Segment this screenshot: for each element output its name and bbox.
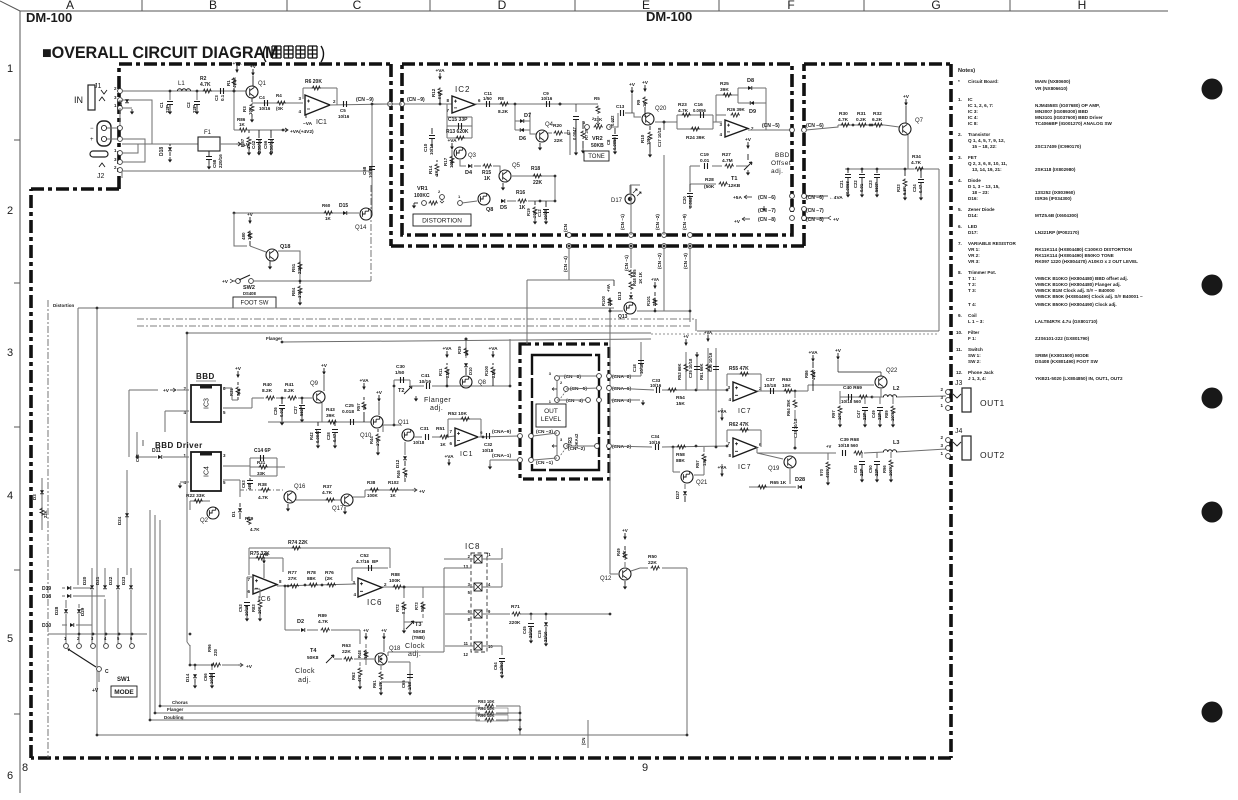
- diode D9: [750, 101, 754, 105]
- svg-text:10K: 10K: [247, 231, 252, 240]
- resistor R60 1K: [324, 211, 334, 215]
- wire IC6a out row: [277, 584, 356, 586]
- Distortion bus wire: [78, 307, 614, 309]
- diode D8: [748, 86, 752, 90]
- svg-text:(CN −4): (CN −4): [563, 256, 568, 272]
- R70 470K vertical: [827, 453, 829, 460]
- svg-text:Notes): Notes): [958, 68, 975, 74]
- resistor R42 0.0047 vertical: [317, 422, 319, 426]
- svg-text:J1: J1: [94, 83, 102, 90]
- svg-text:Q18: Q18: [280, 244, 290, 250]
- diode D11: [158, 455, 162, 459]
- svg-text:4.7K: 4.7K: [200, 82, 211, 88]
- svg-text:8.2K: 8.2K: [284, 388, 295, 394]
- trimmer T3: [404, 622, 423, 628]
- svg-text:560P: 560P: [299, 406, 304, 416]
- resistor R87 1K: [248, 130, 250, 133]
- svg-text:−: −: [90, 126, 94, 132]
- svg-text:D20: D20: [82, 576, 87, 585]
- diode D23: [130, 568, 132, 585]
- ground VR1: [414, 202, 418, 204]
- resistor R31 0.2K: [858, 123, 868, 127]
- resistor R12 56K: [438, 88, 442, 97]
- svg-text:R100: R100: [484, 365, 489, 376]
- svg-text:Clock: Clock: [405, 643, 425, 650]
- wire Q18 collector right: [388, 652, 444, 670]
- svg-text:R30: R30: [839, 111, 848, 117]
- wire J1 ring loop: [122, 100, 152, 144]
- MAIN board outline left edge: [29, 189, 33, 758]
- trimmer T2: [404, 386, 412, 394]
- svg-text:C14 6P: C14 6P: [254, 448, 271, 454]
- svg-text:C19: C19: [700, 152, 709, 158]
- R96 220 cluster: [190, 645, 238, 665]
- svg-text:C34: C34: [651, 434, 660, 439]
- svg-text:3: 3: [7, 347, 13, 359]
- svg-text:10K: 10K: [622, 550, 627, 558]
- capacitor C33 10/16: [657, 387, 660, 393]
- wire pot to right edge: [557, 376, 599, 400]
- svg-text:+VA: +VA: [651, 277, 659, 282]
- svg-text:22P: 22P: [877, 412, 882, 420]
- resistor R34 4.7K: [915, 167, 925, 171]
- resistor R74 22K: [292, 546, 302, 550]
- wire top loop R74: [249, 548, 390, 568]
- capacitor C45 22/10: [530, 614, 532, 620]
- svg-text:10K: 10K: [375, 438, 380, 446]
- verticals R53 C35: [686, 352, 697, 390]
- svg-text:10/18: 10/18: [413, 440, 425, 445]
- bus right tie: [496, 706, 520, 735]
- resistor R27 4.7M: [725, 164, 735, 168]
- capacitor C1 22P: [169, 91, 171, 100]
- svg-text:C53: C53: [238, 604, 243, 612]
- svg-text:10/16: 10/16: [541, 96, 553, 101]
- svg-text:R46: R46: [396, 470, 401, 478]
- resistor R35 56K: [236, 387, 240, 396]
- svg-text:10.: 10.: [956, 330, 962, 335]
- svg-text:C27: C27: [293, 406, 298, 414]
- IC4 BBD driver chip: [191, 452, 221, 491]
- svg-text:ZJS6101-222 (GX801790): ZJS6101-222 (GX801790): [1035, 336, 1090, 341]
- svg-text:0.0047: 0.0047: [688, 195, 693, 208]
- svg-text:L3: L3: [893, 440, 899, 446]
- svg-text:13S252 (IX803960): 13S252 (IX803960): [1035, 190, 1075, 195]
- svg-text:VM5CK B50KO (HX804490) Clock a: VM5CK B50KO (HX804490) Clock adj.: [1035, 302, 1117, 307]
- svg-text:(CN −2): (CN −2): [657, 253, 662, 269]
- MAIN board outline notch right edge: [802, 64, 806, 246]
- punch hole dots: [1202, 79, 1223, 100]
- svg-text:C32: C32: [484, 442, 493, 447]
- svg-text:(CN −6): (CN −6): [758, 195, 776, 201]
- svg-text:R14: R14: [428, 165, 433, 174]
- ground at J1 sleeve: [131, 109, 133, 112]
- resistor R62b 47K: [359, 662, 361, 666]
- svg-text:D16:: D16:: [968, 196, 978, 201]
- svg-text:R97: R97: [831, 410, 836, 418]
- resistor R100b 22K: [608, 298, 612, 307]
- svg-text:(CNA−9): (CNA−9): [492, 429, 511, 435]
- bus left feeders: [150, 510, 160, 720]
- svg-text:T 2:: T 2:: [968, 282, 977, 287]
- svg-text:Q9: Q9: [310, 381, 319, 387]
- wire IC1f out to CNA-9: [478, 436, 518, 437]
- svg-text:SR8M (KX801500) MODE: SR8M (KX801500) MODE: [1035, 353, 1089, 358]
- svg-text:4.7/16: 4.7/16: [356, 559, 370, 565]
- svg-text:−VA: −VA: [303, 121, 313, 127]
- svg-text:VR (NX806610): VR (NX806610): [1035, 86, 1068, 91]
- capacitor C58 220/16: [208, 151, 210, 156]
- wire Q9 emitter row: [268, 403, 360, 422]
- op-amp IC7a: [733, 382, 757, 401]
- long wire footswitch to mid: [187, 333, 651, 665]
- capacitor C34 10/16: [656, 444, 659, 450]
- svg-text:R27: R27: [722, 152, 731, 158]
- capacitor C15b 22/10: [545, 614, 547, 620]
- svg-text:R88: R88: [391, 572, 400, 578]
- svg-text:8: 8: [22, 762, 28, 774]
- svg-text:R96 10K: R96 10K: [478, 713, 495, 718]
- wires lower pot: [533, 433, 597, 460]
- resistor R61b 4.7K: [380, 666, 382, 670]
- svg-text:D17:: D17:: [968, 230, 978, 235]
- svg-text:0.0056: 0.0056: [612, 137, 617, 150]
- svg-text:Diode: Diode: [968, 178, 981, 183]
- svg-text:8.2K: 8.2K: [498, 109, 509, 115]
- feedback R52 10K: [448, 419, 481, 437]
- svg-text:10K: 10K: [646, 136, 651, 145]
- svg-text:OUT1: OUT1: [980, 398, 1005, 408]
- vertical R64 C38: [794, 391, 796, 448]
- svg-text:(CN: (CN: [563, 224, 568, 232]
- svg-text:C50: C50: [868, 465, 873, 473]
- svg-text:R49: R49: [616, 548, 621, 556]
- svg-text:10/18: 10/18: [639, 363, 644, 374]
- capacitor C22 0.01: [861, 169, 863, 173]
- resistor R80 10K: [248, 231, 252, 240]
- svg-text:Q20: Q20: [655, 106, 667, 112]
- wire right rail horizontal: [696, 319, 939, 331]
- capacitor C26 0.01: [281, 398, 283, 404]
- OUT LEVEL label box: [536, 404, 566, 427]
- C19 R27 T1 bbd offset cluster: [690, 166, 748, 184]
- svg-text:10/18 560: 10/18 560: [838, 443, 859, 448]
- wire C25 to Q10: [358, 421, 371, 423]
- svg-text:RK097 1220 (HX804470) A10KO x: RK097 1220 (HX804470) A10KO x 2 OUT LEVE…: [1035, 259, 1138, 264]
- resistor R21 33K: [259, 465, 269, 469]
- fuse F1: [198, 137, 220, 151]
- svg-text:50KB: 50KB: [591, 143, 604, 149]
- wire T2 row: [410, 385, 510, 387]
- svg-text:15 ~ 18, 22:: 15 ~ 18, 22:: [972, 144, 997, 149]
- svg-text:L1: L1: [178, 81, 185, 87]
- capacitor C31: [426, 434, 429, 440]
- wire Q13 down to Q12: [609, 311, 611, 574]
- svg-text:C15 33P: C15 33P: [448, 117, 468, 123]
- resistor R41 8.2K: [288, 396, 298, 400]
- coil L3: [883, 450, 896, 452]
- svg-text:R101: R101: [646, 295, 651, 306]
- op-amp IC6a: [253, 575, 277, 594]
- svg-text:15K: 15K: [676, 401, 685, 407]
- svg-text:Q1: Q1: [258, 81, 267, 87]
- op-amp IC1b: [725, 120, 748, 137]
- svg-text:J4: J4: [955, 428, 963, 435]
- TONE label box: [584, 151, 609, 161]
- svg-text:R19: R19: [526, 208, 531, 216]
- svg-text:88K: 88K: [676, 458, 685, 464]
- svg-text:MN3007 (IG089300) BBD: MN3007 (IG089300) BBD: [1035, 109, 1089, 114]
- resistor R3 10K: [251, 98, 253, 102]
- wire +VA supply rail: [234, 91, 283, 130]
- capacitor C13 0.022: [621, 110, 624, 116]
- resistor R43 39K: [328, 420, 338, 424]
- capacitor C11 1/50: [487, 101, 490, 107]
- svg-text:R24 39K: R24 39K: [686, 135, 705, 141]
- capacitor C27 560P: [301, 398, 303, 404]
- diode D1: [239, 503, 241, 507]
- svg-text:D19: D19: [42, 586, 51, 592]
- svg-text:R10: R10: [640, 134, 645, 143]
- svg-text:C58: C58: [212, 159, 217, 168]
- svg-text:10K: 10K: [449, 159, 454, 168]
- diode D22: [117, 568, 119, 585]
- wire IC1 out to CN-9: [330, 104, 390, 105]
- ground Q16 Q17: [287, 504, 289, 506]
- capacitor C28 0.47: [334, 422, 336, 426]
- svg-text:100K: 100K: [367, 493, 379, 498]
- svg-text:10/16: 10/16: [338, 114, 350, 119]
- svg-text:TONE: TONE: [588, 154, 605, 160]
- resistor R54 15K: [668, 388, 678, 392]
- svg-text:G: G: [931, 0, 940, 12]
- svg-text:6.2K: 6.2K: [872, 117, 883, 123]
- resistor R57b 15K vertical: [703, 447, 705, 472]
- svg-text:Distortion: Distortion: [53, 303, 74, 308]
- svg-text:D23: D23: [121, 576, 126, 585]
- svg-text:R65 1K: R65 1K: [770, 480, 787, 486]
- svg-text:Coil: Coil: [968, 313, 977, 318]
- svg-text:R21: R21: [257, 460, 266, 465]
- svg-text:C13: C13: [616, 104, 625, 109]
- ground Q5: [502, 183, 504, 185]
- transistor Q21 FET: [681, 471, 693, 483]
- svg-text:Q8: Q8: [486, 207, 493, 213]
- resistor R88 100K: [393, 585, 403, 589]
- svg-text:D11: D11: [152, 448, 161, 454]
- svg-text:4.7K: 4.7K: [258, 495, 269, 501]
- svg-text:VM5CK B1M Clock adj. S/# ~ B40: VM5CK B1M Clock adj. S/# ~ B40000: [1035, 288, 1115, 293]
- long verticals R61 C36: [708, 348, 716, 448]
- thin chain line mid horizontal 1: [137, 318, 696, 320]
- svg-text:R26 39K: R26 39K: [727, 107, 746, 112]
- battery B1: [97, 121, 111, 146]
- svg-text:D10: D10: [468, 367, 473, 375]
- svg-text:Flanger: Flanger: [424, 397, 451, 404]
- capacitor C39 and resistor R68 560: [843, 450, 846, 456]
- svg-text:56K: 56K: [437, 90, 442, 99]
- svg-text:C64: C64: [493, 662, 498, 670]
- thin chain line near Q14: [370, 185, 372, 281]
- pot VR2 50KB: [585, 125, 590, 130]
- svg-text:22P: 22P: [859, 468, 864, 476]
- svg-text:R63: R63: [782, 377, 791, 383]
- svg-text:IN: IN: [74, 95, 83, 105]
- svg-text:R39: R39: [457, 346, 462, 354]
- capacitor C2 22P: [196, 91, 198, 100]
- resistor R2 4.7K: [203, 89, 213, 93]
- svg-text:C2: C2: [186, 102, 191, 108]
- wire CNA-1 row: [490, 460, 518, 464]
- C52 loop: [352, 568, 388, 581]
- svg-text:1K: 1K: [434, 169, 439, 176]
- svg-text:FOOT SW: FOOT SW: [241, 301, 269, 307]
- OUT LEVEL board inner outline: [532, 355, 599, 470]
- svg-text:Q19: Q19: [768, 466, 780, 472]
- svg-text:(CN −2): (CN −2): [655, 214, 660, 230]
- svg-text:1K: 1K: [464, 351, 469, 356]
- svg-text:C37: C37: [766, 377, 775, 383]
- svg-text:+VA: +VA: [704, 330, 712, 335]
- resistor R57 1K: [362, 402, 366, 411]
- resistor R72 8.2K vertical: [403, 587, 405, 622]
- svg-text:0.47: 0.47: [332, 433, 337, 442]
- capacitor C18 10/18: [638, 361, 644, 364]
- svg-text:T 3:: T 3:: [968, 288, 977, 293]
- transistor Q22: [875, 376, 887, 388]
- svg-text:C58: C58: [362, 166, 367, 175]
- svg-text:R53 66K: R53 66K: [677, 363, 682, 380]
- svg-text:10K: 10K: [248, 106, 253, 115]
- svg-text:Transistor: Transistor: [968, 132, 990, 137]
- svg-text:22K: 22K: [554, 138, 563, 144]
- svg-text:+5A: +5A: [733, 195, 742, 201]
- svg-text:10/18: 10/18: [482, 448, 494, 453]
- diode pair D7 D6: [515, 104, 530, 130]
- svg-text:0.0068: 0.0068: [845, 181, 850, 194]
- svg-text:F1: F1: [204, 130, 212, 136]
- svg-text:D18: D18: [42, 594, 51, 600]
- svg-text:BBD: BBD: [196, 372, 215, 381]
- svg-text:+VA: +VA: [606, 284, 611, 292]
- capacitor C30 1/50: [401, 377, 404, 383]
- svg-text:1.: 1.: [958, 97, 962, 102]
- capacitor C63 47P: [249, 478, 251, 480]
- transistor Q13 FET: [624, 302, 636, 314]
- svg-text:Q7: Q7: [915, 118, 924, 124]
- capacitor C47 22P: [864, 397, 866, 404]
- svg-text:D22: D22: [108, 576, 113, 585]
- svg-text:adj.: adj.: [771, 168, 783, 175]
- wire to L3 and J4: [864, 449, 946, 453]
- resistor R20 22K: [554, 131, 564, 135]
- svg-text:(CN −7): (CN −7): [758, 208, 776, 214]
- trimmer T1 12KB: [744, 162, 752, 170]
- transistor Q18a: [266, 249, 278, 261]
- capacitor C48 22P: [861, 453, 863, 458]
- switch SW2: [232, 280, 236, 282]
- svg-text:1K: 1K: [403, 473, 408, 478]
- svg-text:1/50: 1/50: [395, 370, 405, 376]
- transistor Q1: [246, 86, 258, 98]
- svg-text:B: B: [209, 0, 217, 12]
- coil L2: [883, 395, 896, 397]
- svg-text:R62: R62: [351, 672, 356, 680]
- svg-text:1K: 1K: [484, 176, 491, 182]
- MAIN board outline bottom edge: [31, 756, 951, 760]
- svg-text:T 4:: T 4:: [968, 302, 977, 307]
- svg-text:(0K: (0K: [276, 106, 284, 111]
- bottom long bus wire: [97, 734, 687, 736]
- svg-text:IC 1, 2, 6, 7:: IC 1, 2, 6, 7:: [968, 103, 994, 108]
- svg-text:10/16: 10/16: [419, 379, 431, 385]
- wire CNA-2 row to IC7b: [611, 446, 727, 447]
- svg-text:10/16: 10/16: [259, 106, 271, 111]
- svg-text:59K: 59K: [420, 604, 425, 612]
- wire Q5 R18 junction to rail: [554, 176, 556, 201]
- svg-text:4.7K: 4.7K: [322, 490, 333, 496]
- svg-text:220K: 220K: [509, 620, 521, 626]
- ground CNA-4: [611, 399, 640, 401]
- svg-text:IC3: IC3: [204, 398, 211, 409]
- svg-text:1K: 1K: [642, 102, 647, 107]
- svg-text:D 1, 3 ~ 13, 15,: D 1, 3 ~ 13, 15,: [968, 184, 1000, 189]
- svg-text:22P: 22P: [192, 105, 197, 113]
- svg-text:4.7K: 4.7K: [678, 108, 689, 114]
- svg-text:D8: D8: [747, 78, 754, 84]
- MAIN board outline jog horizontal: [31, 187, 119, 191]
- svg-text:D3: D3: [118, 100, 123, 106]
- wire CN-6 to Q7: [806, 125, 884, 130]
- svg-text:D5: D5: [500, 205, 507, 211]
- svg-text:0.01: 0.01: [279, 408, 284, 417]
- diode D15: [343, 211, 347, 215]
- svg-text:VARIABLE RESISTOR: VARIABLE RESISTOR: [968, 241, 1016, 246]
- svg-text:9.: 9.: [958, 313, 962, 318]
- resistor R11 22K: [445, 367, 449, 376]
- svg-text:12KB: 12KB: [728, 183, 741, 189]
- svg-text:(CN −1): (CN −1): [620, 214, 625, 230]
- wire flanger bus drop: [509, 339, 511, 386]
- resistor R89b 4.7K: [321, 628, 331, 632]
- svg-text:D: D: [498, 0, 507, 12]
- svg-text:10/16: 10/16: [429, 143, 434, 155]
- svg-text:+V: +V: [826, 444, 831, 449]
- svg-text:IC7: IC7: [738, 464, 751, 471]
- resistor R94 10K: [485, 711, 495, 715]
- svg-text:(CN −4): (CN −4): [566, 398, 583, 404]
- svg-text:4.7M: 4.7M: [722, 158, 733, 164]
- resistor R28 50K: [719, 182, 729, 186]
- wire right L loop: [686, 568, 688, 735]
- svg-text:470K: 470K: [825, 468, 830, 478]
- svg-text:10K: 10K: [297, 289, 302, 298]
- svg-text:480: 480: [241, 232, 246, 240]
- svg-text:R5: R5: [594, 96, 600, 101]
- svg-text:10K: 10K: [257, 606, 262, 614]
- svg-text:C15: C15: [537, 630, 542, 638]
- wire Q10 to Q11: [383, 386, 401, 432]
- svg-text:(CN −2): (CN −2): [568, 446, 585, 452]
- svg-text:D3: D3: [32, 494, 37, 500]
- resistor R6 20K feedback: [303, 88, 337, 105]
- svg-text:2.2/50: 2.2/50: [499, 662, 504, 674]
- svg-text:+V: +V: [683, 334, 688, 339]
- IC2 out chain C11 R8: [475, 103, 515, 105]
- svg-text:D14: D14: [185, 673, 190, 682]
- svg-text:11.: 11.: [956, 347, 962, 352]
- svg-text:22/10: 22/10: [543, 631, 548, 642]
